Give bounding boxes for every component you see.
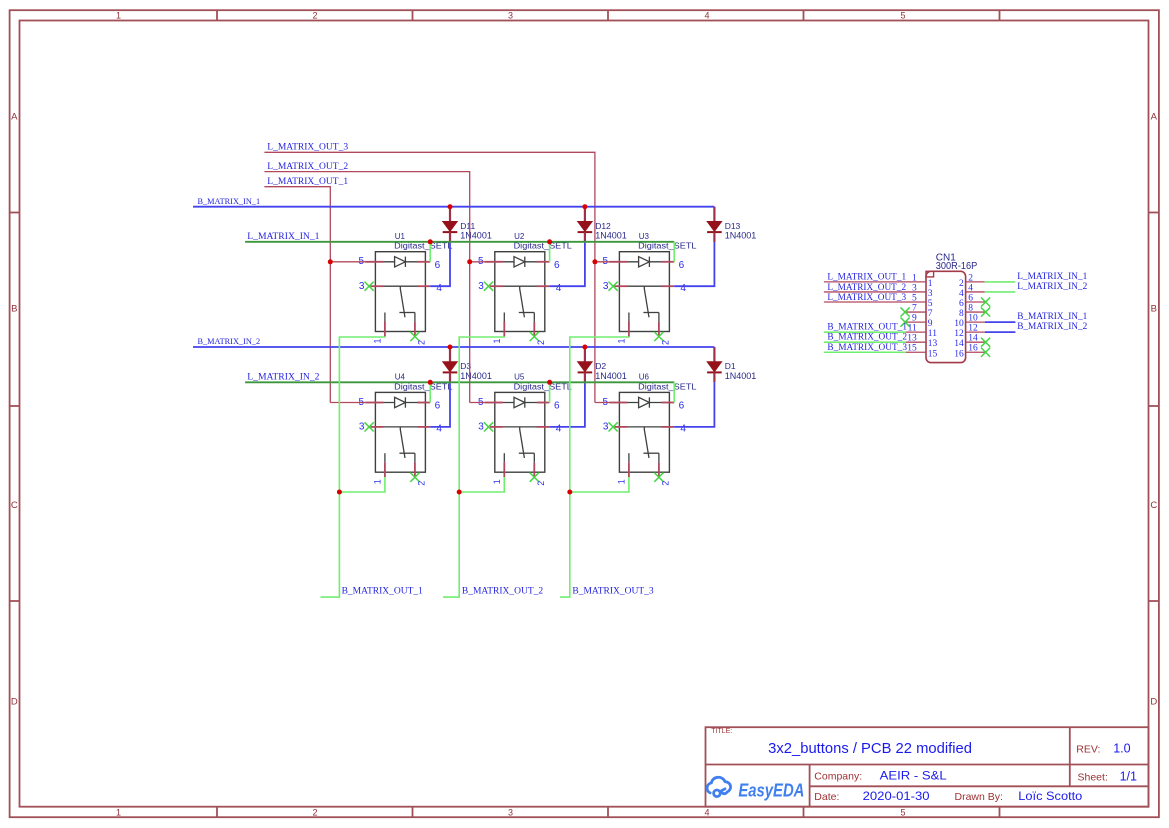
svg-text:2020-01-30: 2020-01-30: [863, 789, 930, 803]
svg-text:1.0: 1.0: [1113, 741, 1130, 755]
svg-text:2: 2: [416, 481, 426, 486]
svg-text:3: 3: [912, 283, 917, 293]
svg-text:11: 11: [908, 324, 917, 334]
svg-text:Company:: Company:: [814, 770, 862, 782]
svg-text:1: 1: [373, 479, 383, 484]
svg-text:5: 5: [928, 299, 933, 309]
svg-text:2: 2: [968, 273, 973, 283]
svg-text:6: 6: [679, 401, 685, 412]
svg-text:8: 8: [959, 309, 964, 319]
svg-text:Loïc Scotto: Loïc Scotto: [1018, 789, 1082, 803]
svg-text:3: 3: [478, 422, 484, 433]
svg-text:1N4001: 1N4001: [595, 371, 627, 381]
svg-text:14: 14: [968, 334, 978, 344]
svg-text:B: B: [1151, 303, 1157, 314]
svg-text:D2: D2: [595, 361, 606, 371]
svg-text:6: 6: [435, 401, 441, 412]
svg-text:3: 3: [508, 10, 513, 20]
svg-text:11: 11: [928, 329, 937, 339]
svg-text:1: 1: [116, 807, 121, 817]
svg-text:1: 1: [617, 479, 627, 484]
svg-text:4: 4: [704, 807, 709, 817]
svg-text:13: 13: [928, 339, 938, 349]
svg-text:2: 2: [536, 481, 546, 486]
svg-text:2: 2: [959, 279, 964, 289]
svg-text:6: 6: [554, 401, 560, 412]
svg-text:4: 4: [968, 283, 973, 293]
svg-text:7: 7: [928, 309, 933, 319]
svg-text:REV:: REV:: [1076, 743, 1100, 755]
svg-text:3: 3: [508, 807, 513, 817]
svg-text:B_MATRIX_OUT_3: B_MATRIX_OUT_3: [572, 586, 653, 597]
svg-text:L_MATRIX_IN_2: L_MATRIX_IN_2: [1017, 281, 1087, 292]
svg-text:C: C: [1150, 500, 1157, 511]
svg-text:Sheet:: Sheet:: [1078, 772, 1108, 784]
svg-text:2: 2: [660, 481, 670, 486]
svg-text:2: 2: [416, 340, 426, 345]
svg-text:13: 13: [907, 334, 917, 344]
svg-text:D: D: [1150, 696, 1157, 707]
svg-text:16: 16: [968, 344, 978, 354]
svg-text:L_MATRIX_OUT_3: L_MATRIX_OUT_3: [827, 292, 906, 303]
svg-text:6: 6: [968, 293, 973, 303]
svg-text:L_MATRIX_OUT_2: L_MATRIX_OUT_2: [267, 161, 348, 172]
svg-text:1/1: 1/1: [1120, 769, 1137, 783]
svg-text:300R-16P: 300R-16P: [936, 261, 978, 272]
svg-text:1N4001: 1N4001: [595, 231, 627, 241]
svg-text:4: 4: [704, 10, 709, 20]
svg-text:5: 5: [900, 807, 905, 817]
svg-text:TITLE:: TITLE:: [711, 728, 732, 735]
svg-text:3: 3: [359, 281, 365, 292]
svg-text:2: 2: [536, 340, 546, 345]
svg-text:12: 12: [968, 324, 978, 334]
svg-text:1: 1: [373, 338, 383, 343]
svg-text:1: 1: [492, 479, 502, 484]
svg-text:1N4001: 1N4001: [460, 371, 492, 381]
svg-text:B_MATRIX_IN_2: B_MATRIX_IN_2: [198, 336, 261, 346]
svg-text:4: 4: [436, 424, 442, 435]
svg-text:4: 4: [680, 283, 686, 294]
svg-text:D12: D12: [595, 221, 611, 231]
svg-text:15: 15: [907, 344, 917, 354]
svg-text:A: A: [1151, 111, 1158, 122]
svg-text:1: 1: [617, 338, 627, 343]
svg-text:12: 12: [954, 329, 964, 339]
svg-text:9: 9: [928, 319, 933, 329]
svg-text:4: 4: [959, 289, 964, 299]
svg-text:D13: D13: [725, 221, 741, 231]
svg-text:C: C: [11, 500, 18, 511]
svg-text:B_MATRIX_OUT_3: B_MATRIX_OUT_3: [827, 342, 907, 353]
svg-text:Date:: Date:: [814, 791, 839, 803]
svg-text:1: 1: [492, 338, 502, 343]
svg-text:3: 3: [478, 281, 484, 292]
svg-text:9: 9: [912, 314, 917, 324]
svg-text:B_MATRIX_OUT_2: B_MATRIX_OUT_2: [462, 586, 543, 597]
svg-text:EasyEDA: EasyEDA: [738, 781, 804, 801]
svg-text:16: 16: [954, 349, 964, 359]
svg-text:AEIR - S&L: AEIR - S&L: [880, 768, 947, 782]
svg-text:1: 1: [928, 279, 933, 289]
svg-text:14: 14: [954, 339, 964, 349]
svg-text:8: 8: [968, 303, 973, 313]
svg-text:4: 4: [680, 424, 686, 435]
svg-text:3x2_buttons / PCB 22 modified: 3x2_buttons / PCB 22 modified: [768, 741, 972, 757]
svg-text:Drawn By:: Drawn By:: [955, 791, 1003, 803]
svg-text:4: 4: [556, 424, 562, 435]
svg-text:7: 7: [912, 303, 917, 313]
svg-text:B: B: [11, 303, 17, 314]
svg-text:6: 6: [679, 260, 685, 271]
svg-text:B_MATRIX_OUT_1: B_MATRIX_OUT_1: [342, 586, 423, 597]
svg-text:6: 6: [554, 260, 560, 271]
svg-text:1N4001: 1N4001: [725, 231, 757, 241]
svg-text:5: 5: [900, 10, 905, 20]
svg-text:6: 6: [435, 260, 441, 271]
svg-text:L_MATRIX_OUT_1: L_MATRIX_OUT_1: [267, 176, 348, 187]
svg-text:5: 5: [912, 293, 917, 303]
svg-text:2: 2: [660, 340, 670, 345]
svg-text:D11: D11: [460, 221, 475, 231]
svg-text:3: 3: [359, 422, 365, 433]
svg-text:4: 4: [436, 283, 442, 294]
svg-text:1N4001: 1N4001: [460, 231, 492, 241]
svg-text:2: 2: [312, 807, 317, 817]
svg-text:4: 4: [556, 283, 562, 294]
svg-text:L_MATRIX_IN_1: L_MATRIX_IN_1: [247, 231, 319, 242]
svg-text:D1: D1: [725, 361, 736, 371]
svg-text:2: 2: [312, 10, 317, 20]
svg-text:6: 6: [959, 299, 964, 309]
svg-text:15: 15: [928, 349, 938, 359]
svg-text:3: 3: [928, 289, 933, 299]
svg-text:3: 3: [603, 422, 609, 433]
svg-text:10: 10: [954, 319, 964, 329]
svg-text:1: 1: [912, 273, 917, 283]
svg-text:1: 1: [116, 10, 121, 20]
svg-text:L_MATRIX_IN_2: L_MATRIX_IN_2: [247, 371, 319, 382]
svg-text:B_MATRIX_IN_1: B_MATRIX_IN_1: [198, 196, 261, 206]
svg-text:10: 10: [968, 314, 978, 324]
svg-text:L_MATRIX_OUT_3: L_MATRIX_OUT_3: [267, 142, 348, 153]
svg-text:A: A: [11, 111, 18, 122]
svg-text:3: 3: [603, 281, 609, 292]
svg-text:B_MATRIX_IN_2: B_MATRIX_IN_2: [1017, 321, 1087, 332]
svg-text:D: D: [11, 696, 18, 707]
svg-text:1N4001: 1N4001: [725, 371, 757, 381]
